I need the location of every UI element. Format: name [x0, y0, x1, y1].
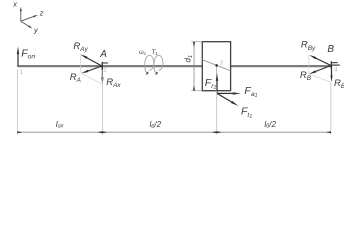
svg-text:z: z — [39, 8, 44, 17]
dimension d1 extension top — [191, 41, 202, 43]
dimension d1 extension bottom — [191, 90, 202, 92]
dimension line bottom — [17, 131, 331, 133]
svg-text:B: B — [327, 44, 334, 55]
force F_t1 arrow — [217, 93, 232, 102]
reaction R_By arrow — [316, 58, 331, 65]
axis x — [20, 11, 22, 21]
helix diagonal line — [202, 60, 230, 71]
construction line diagonal at B — [309, 74, 331, 82]
svg-text:ω1: ω1 — [139, 50, 146, 56]
rotation loop left — [145, 55, 154, 73]
dimension d1 arrowhead top — [193, 42, 195, 47]
reaction R_Bx arrow — [331, 66, 333, 76]
rotation loop right — [154, 55, 163, 73]
gear centerline — [216, 65, 218, 90]
reaction R_Ax arrow — [101, 66, 103, 77]
support dash at B — [332, 62, 338, 64]
reaction R_Ay arrow — [87, 58, 102, 66]
construction line vertical at A — [79, 55, 81, 73]
beam end stub at B — [331, 64, 340, 66]
svg-text:T1: T1 — [151, 49, 157, 56]
support dash at A — [103, 62, 108, 64]
coordinate axes origin — [21, 11, 34, 27]
tick at A — [101, 62, 103, 69]
dim arrow station4 — [326, 131, 331, 133]
force F_op arrow — [17, 54, 19, 66]
dim arrow station1 — [17, 131, 22, 133]
svg-text:A: A — [99, 49, 107, 60]
svg-text:3: 3 — [220, 59, 224, 66]
beam shaft left segment — [17, 65, 202, 67]
axis z arrowhead — [33, 15, 38, 18]
axis y arrowhead — [28, 25, 32, 28]
svg-text:x: x — [12, 0, 17, 8]
construction line diagonal at A — [82, 73, 103, 84]
dimension d1 line — [193, 42, 195, 90]
axis y — [21, 21, 29, 26]
dim arrows station2 — [97, 131, 102, 133]
force F_a1 arrow — [217, 92, 233, 94]
axis z — [21, 16, 34, 21]
extension line at station 3 — [216, 91, 218, 135]
force F_r1 arrow — [216, 81, 218, 94]
extension line at station 4 — [330, 83, 332, 135]
beam shaft right segment — [231, 65, 331, 67]
gear center dot node 3 — [215, 64, 218, 67]
reaction R_B arrow — [316, 66, 331, 72]
reaction R_A arrow — [88, 66, 102, 71]
dimension d1 arrowhead bottom — [193, 85, 195, 90]
rotation loop right arrowhead — [155, 72, 158, 76]
axis x arrowhead — [20, 7, 22, 12]
extension line at station 1 — [16, 70, 18, 135]
rotation loop left arrowhead — [146, 72, 149, 76]
extension line at station 2 — [101, 70, 103, 135]
dim arrows station3 — [212, 131, 217, 133]
construction line vertical at B — [308, 55, 310, 74]
gear wheel rectangle — [202, 42, 230, 91]
tick at B — [330, 61, 332, 69]
